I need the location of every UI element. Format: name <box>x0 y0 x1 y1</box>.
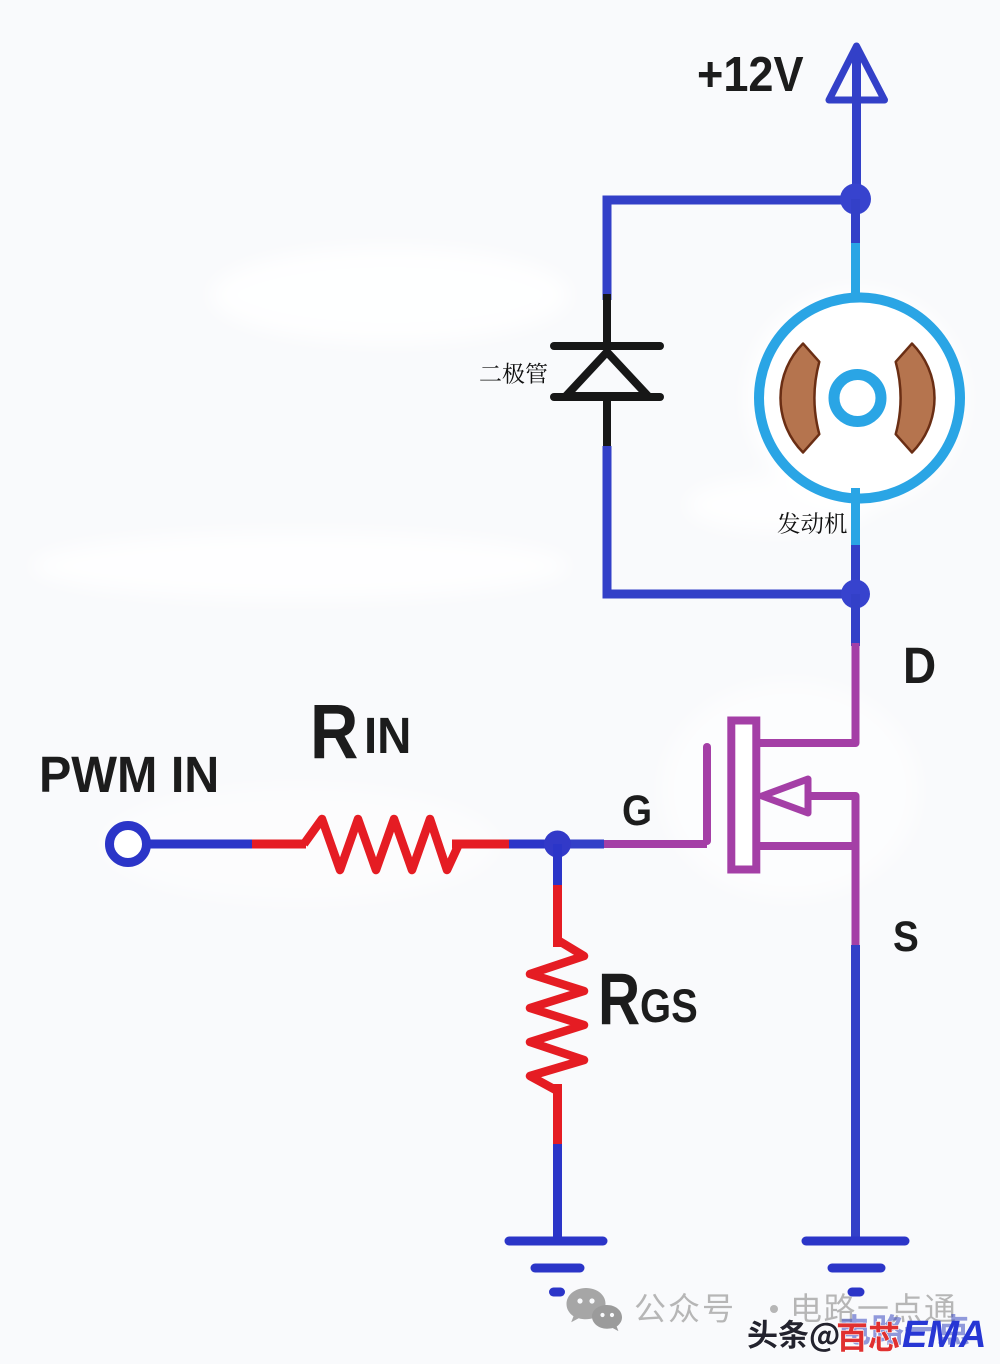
wire: red lead out of RGS <box>553 1084 562 1147</box>
watermark text 公众号 <box>636 1293 732 1323</box>
mosfet Q1 body arrow head <box>762 779 808 813</box>
watermark wechat icon <box>567 1288 623 1331</box>
svg-text:IN: IN <box>364 707 411 764</box>
wire: node B to drain (blue then purple) <box>851 594 860 646</box>
node B (drain junction) <box>841 580 870 609</box>
label 二极管 <box>480 363 547 384</box>
mosfet Q1 body arrow line <box>806 796 856 846</box>
diode D1 anode bar <box>554 393 660 401</box>
wire: bottom rail from diode to node B <box>603 590 856 599</box>
power +12V symbol arrow <box>829 46 885 196</box>
diode D1 top lead (black) <box>603 294 611 346</box>
watermark 头条@ <box>748 1320 838 1352</box>
resistor RGS zigzag <box>530 940 584 1091</box>
wire: source down (purple then blue) <box>852 846 860 948</box>
motor M1 right brush arc <box>896 344 935 453</box>
wire: gate wire purple from junction to gate <box>601 840 707 848</box>
motor M1 outer circle <box>759 298 960 499</box>
svg-text:EMA: EMA <box>902 1314 986 1356</box>
svg-text:G: G <box>622 786 652 834</box>
wire: diode top lead blue <box>603 196 612 300</box>
diode D1 bottom lead (black) <box>603 397 611 449</box>
wire: node C down blue <box>553 844 562 888</box>
node C (gate junction) <box>544 831 571 858</box>
label 发动机 <box>778 512 847 534</box>
svg-text:D: D <box>903 638 936 695</box>
ground 2 <box>806 1241 905 1292</box>
wire: blue segment junction to purple <box>556 840 604 849</box>
terminal PWM IN <box>110 826 147 863</box>
wire: drain purple down and into MOSFET <box>757 643 856 743</box>
motor M1 left brush arc <box>780 344 819 453</box>
svg-text:GS: GS <box>640 981 698 1033</box>
wire: node A down to motor (blue then light blue) <box>851 199 860 246</box>
resistor RIN zigzag <box>304 819 459 870</box>
wire: red lead out of RIN <box>452 840 511 849</box>
svg-text:S: S <box>893 912 919 960</box>
wire: blue lead to ground 1 <box>553 1144 562 1243</box>
wire: blue segment to node C <box>509 840 560 849</box>
mosfet Q1 channel plate <box>731 721 756 870</box>
wire: red lead into RGS <box>553 885 562 947</box>
wire: input lead blue <box>146 840 254 849</box>
ground 1 <box>509 1241 603 1292</box>
wire: top rail from node A to diode <box>603 196 856 205</box>
mosfet Q1 source tab <box>757 842 856 850</box>
wire: diode bottom lead blue <box>603 446 612 598</box>
watermark faint blue remnants <box>842 1314 969 1345</box>
mosfet Q1 gate electrode <box>703 747 711 841</box>
wire: red lead into RIN <box>252 840 306 849</box>
svg-text:R: R <box>310 690 358 775</box>
svg-text:R: R <box>598 959 640 1041</box>
diode D1 triangle <box>566 352 648 396</box>
svg-text:PWM IN: PWM IN <box>39 746 219 803</box>
wire: motor bottom to node B <box>851 488 860 547</box>
motor M1 inner circle <box>834 375 881 422</box>
node A (top junction) <box>840 184 871 215</box>
svg-text:+12V: +12V <box>697 46 804 101</box>
watermark 百芯 <box>838 1322 899 1352</box>
diode D1 cathode bar <box>554 342 660 350</box>
